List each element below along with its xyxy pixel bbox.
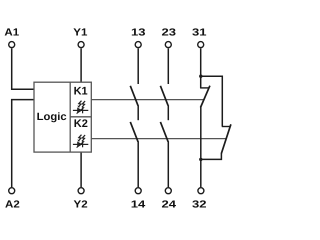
wire 23 down (167, 48, 169, 84)
terminal 13 (135, 42, 141, 48)
NO contact 13 (K1) blade (130, 86, 138, 106)
svg-text:Y1: Y1 (73, 28, 87, 39)
wire 31 down (200, 48, 202, 88)
svg-text:24: 24 (162, 200, 177, 211)
terminal Y1 (78, 42, 84, 48)
junction node at 32 line (199, 158, 202, 161)
wire 13 down (137, 48, 139, 84)
terminal 23 (165, 42, 171, 48)
NC contact 31 (K1) seat bar (200, 87, 209, 89)
relay K1 coil LED symbol (73, 101, 88, 114)
terminal A2 (9, 188, 15, 194)
svg-text:K2: K2 (74, 118, 88, 130)
svg-text:Y2: Y2 (74, 200, 88, 211)
relay K2 coil LED symbol (73, 135, 88, 148)
K1 mechanical link line (91, 99, 204, 101)
svg-text:31: 31 (192, 28, 207, 39)
wire below NC K1 down to 32 (200, 107, 202, 187)
wire A1 to logic box (12, 48, 34, 89)
NO contact 23 (K2) blade (160, 122, 168, 142)
NO contact 23 (K1) blade (160, 86, 168, 106)
terminal 14 (135, 188, 141, 194)
NC contact 32 (K2) seat bar (222, 126, 231, 128)
terminal 31 (198, 42, 204, 48)
wire between 13 contacts (137, 105, 139, 120)
svg-text:14: 14 (131, 200, 146, 211)
NC contact 32 (K2) blade (221, 124, 231, 153)
wire to 14 (137, 141, 139, 187)
NC contact 31 (K1) blade (201, 86, 210, 108)
terminal A1 (9, 42, 15, 48)
svg-text:K1: K1 (74, 85, 88, 97)
logic/K divider (69, 82, 71, 152)
svg-text:13: 13 (131, 28, 146, 39)
wire between 23 contacts (167, 105, 169, 120)
svg-text:23: 23 (162, 28, 177, 39)
junction node at 31 branch (199, 75, 202, 78)
svg-text:Logic: Logic (37, 111, 67, 123)
logic box outline (34, 82, 91, 152)
K1/K2 divider (70, 116, 91, 118)
wire Y1 to K1 box (80, 48, 82, 82)
svg-text:32: 32 (192, 200, 207, 211)
wire to 24 (167, 141, 169, 187)
terminal 24 (165, 188, 171, 194)
svg-text:A2: A2 (5, 200, 20, 211)
wire Y2 from K2 box (80, 152, 82, 187)
bypass wire 31 to right (201, 76, 223, 126)
wire from NC K2 back to 32 line (201, 153, 222, 159)
svg-text:A1: A1 (4, 28, 19, 39)
K2 mechanical link line (91, 138, 226, 140)
NO contact 13 (K2) blade (130, 122, 138, 142)
terminal 32 (198, 188, 204, 194)
terminal Y2 (78, 188, 84, 194)
wire A2 to logic box (12, 100, 34, 188)
